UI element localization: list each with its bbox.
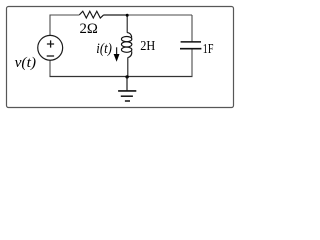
ground bar 1 [118,90,136,92]
junction dot bottom node [125,75,128,78]
svg-text:2H: 2H [140,39,155,54]
svg-text:i(t): i(t) [96,41,112,57]
resistor R 2ohm zigzag [79,11,103,18]
inductor coil ring 2 [121,42,131,47]
voltage source minus sign [47,55,54,57]
inductor coil ring 1 [121,37,131,42]
inductor L coil tail top [127,33,132,38]
voltage source v(t) circle [38,35,63,60]
ground bar 2 [121,95,133,97]
wire capacitor bottom [191,49,193,77]
svg-text:2Ω: 2Ω [80,21,98,37]
wire left vertical lower [49,60,51,76]
wire inductor bottom [127,57,129,76]
svg-text:1F: 1F [203,41,214,56]
inductor coil tail bottom [128,52,132,58]
voltage source plus sign [47,40,54,47]
ground stub [126,77,128,91]
capacitor plate bottom [180,48,201,50]
wire top left segment [50,14,79,16]
wire left vertical upper [49,15,51,36]
junction dot top node [126,14,129,17]
current arrow i(t) line [116,47,118,55]
capacitor plate top [181,41,201,43]
wire resistor right lead to node [104,14,127,16]
svg-text:v(t): v(t) [15,55,37,71]
wire capacitor top [191,15,193,42]
ground bar 3 [125,100,130,102]
wire bottom [50,76,193,78]
current arrow head [114,54,120,62]
wire inductor top [126,15,128,33]
inductor coil ring 3 [121,47,131,52]
wire top right segment [127,14,192,16]
border frame [7,7,234,108]
